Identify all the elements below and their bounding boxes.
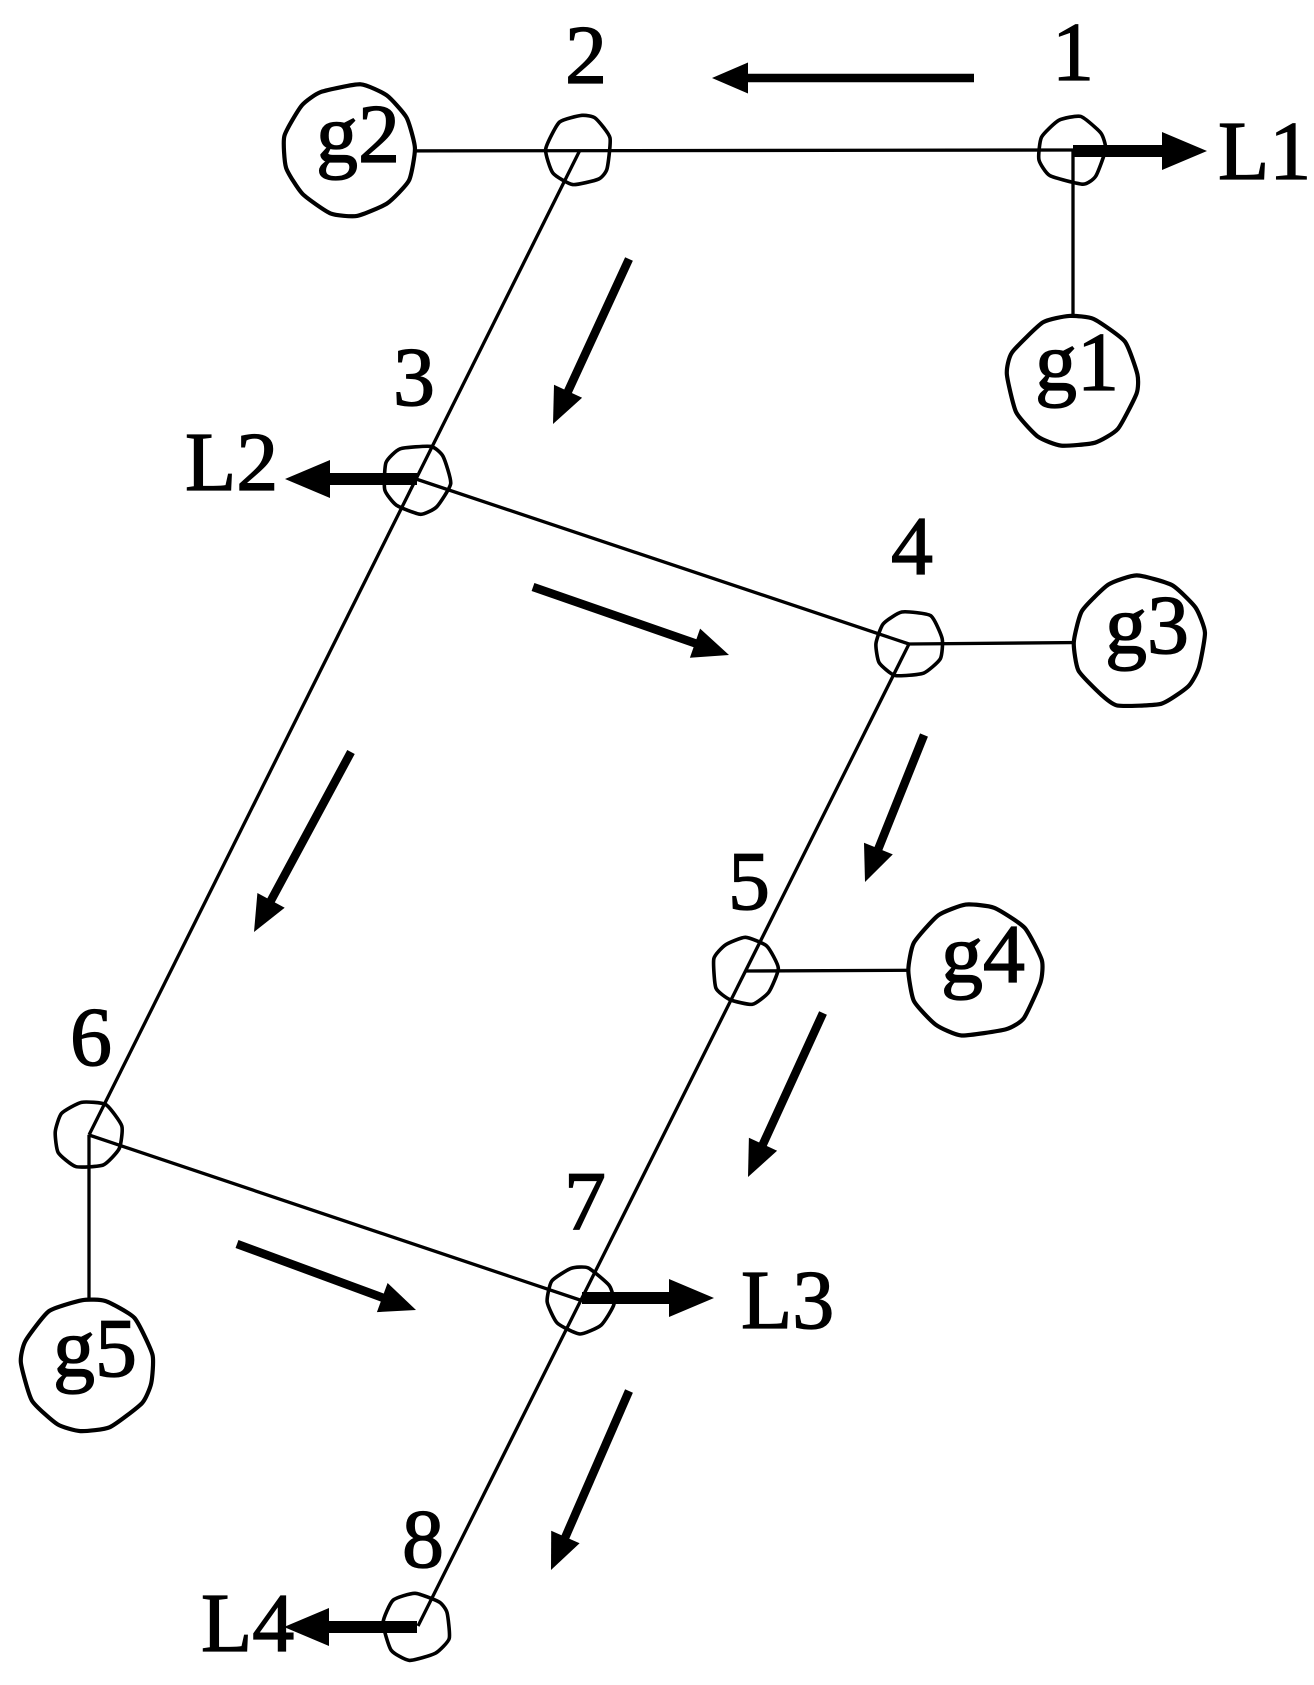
svg-text:g2: g2 [316, 88, 400, 181]
svg-text:L1: L1 [1218, 105, 1311, 198]
node 8 bus circle [383, 1593, 449, 1660]
svg-text:L3: L3 [741, 1254, 834, 1347]
load arrow L4 [284, 1608, 417, 1646]
wire node5-g4 [745, 970, 975, 971]
svg-text:8: 8 [402, 1493, 444, 1586]
flow arrow line 5-7 [748, 1013, 823, 1177]
wire node1-g1 [1071, 150, 1074, 381]
node 1 bus circle [1039, 116, 1106, 184]
node 3 bus circle [384, 446, 450, 514]
wire node6-node7 [89, 1135, 580, 1300]
flow arrow line 3-4 [533, 587, 729, 658]
wire node6-g5 [87, 1135, 90, 1367]
load arrow L3 [582, 1279, 714, 1317]
svg-text:7: 7 [564, 1155, 606, 1248]
generator g4 [908, 904, 1042, 1035]
wire node4-g3 [909, 642, 1139, 644]
svg-text:g1: g1 [1035, 316, 1119, 409]
flow arrow line 7-8 [551, 1391, 629, 1570]
node 5 bus circle [714, 937, 779, 1004]
wire node4-node5-node7-node8 [418, 644, 909, 1626]
load arrow L1 [1073, 132, 1207, 170]
flow arrow line 2-3 [553, 259, 629, 424]
flow arrow line 1-2 [712, 63, 974, 94]
node 4 bus circle [876, 612, 943, 676]
generator g3 [1074, 575, 1205, 706]
flow arrow line 3-6 [254, 752, 351, 932]
node 7 bus circle [547, 1267, 614, 1334]
flow arrow line 6-7 [237, 1244, 416, 1312]
load arrow L2 [285, 460, 417, 498]
svg-text:g5: g5 [53, 1302, 137, 1395]
svg-text:3: 3 [393, 331, 435, 424]
svg-text:5: 5 [728, 835, 770, 928]
svg-text:2: 2 [565, 9, 607, 102]
generator g2 [284, 84, 415, 216]
svg-text:g4: g4 [941, 908, 1025, 1001]
generator g1 [1007, 316, 1138, 446]
generator g5 [21, 1300, 153, 1432]
svg-text:g3: g3 [1105, 579, 1189, 672]
svg-text:L4: L4 [201, 1577, 294, 1670]
svg-text:4: 4 [891, 500, 933, 593]
flow arrow line 4-5 [864, 735, 924, 882]
wire node2-node3-node6 [89, 150, 580, 1135]
svg-text:6: 6 [70, 991, 112, 1084]
wire g2-node2-node1 [350, 150, 1073, 151]
svg-text:L2: L2 [185, 416, 278, 509]
wire node3-node4 [416, 479, 909, 644]
node 2 bus circle [546, 115, 611, 184]
node 6 bus circle [55, 1102, 122, 1167]
svg-text:1: 1 [1052, 6, 1094, 99]
